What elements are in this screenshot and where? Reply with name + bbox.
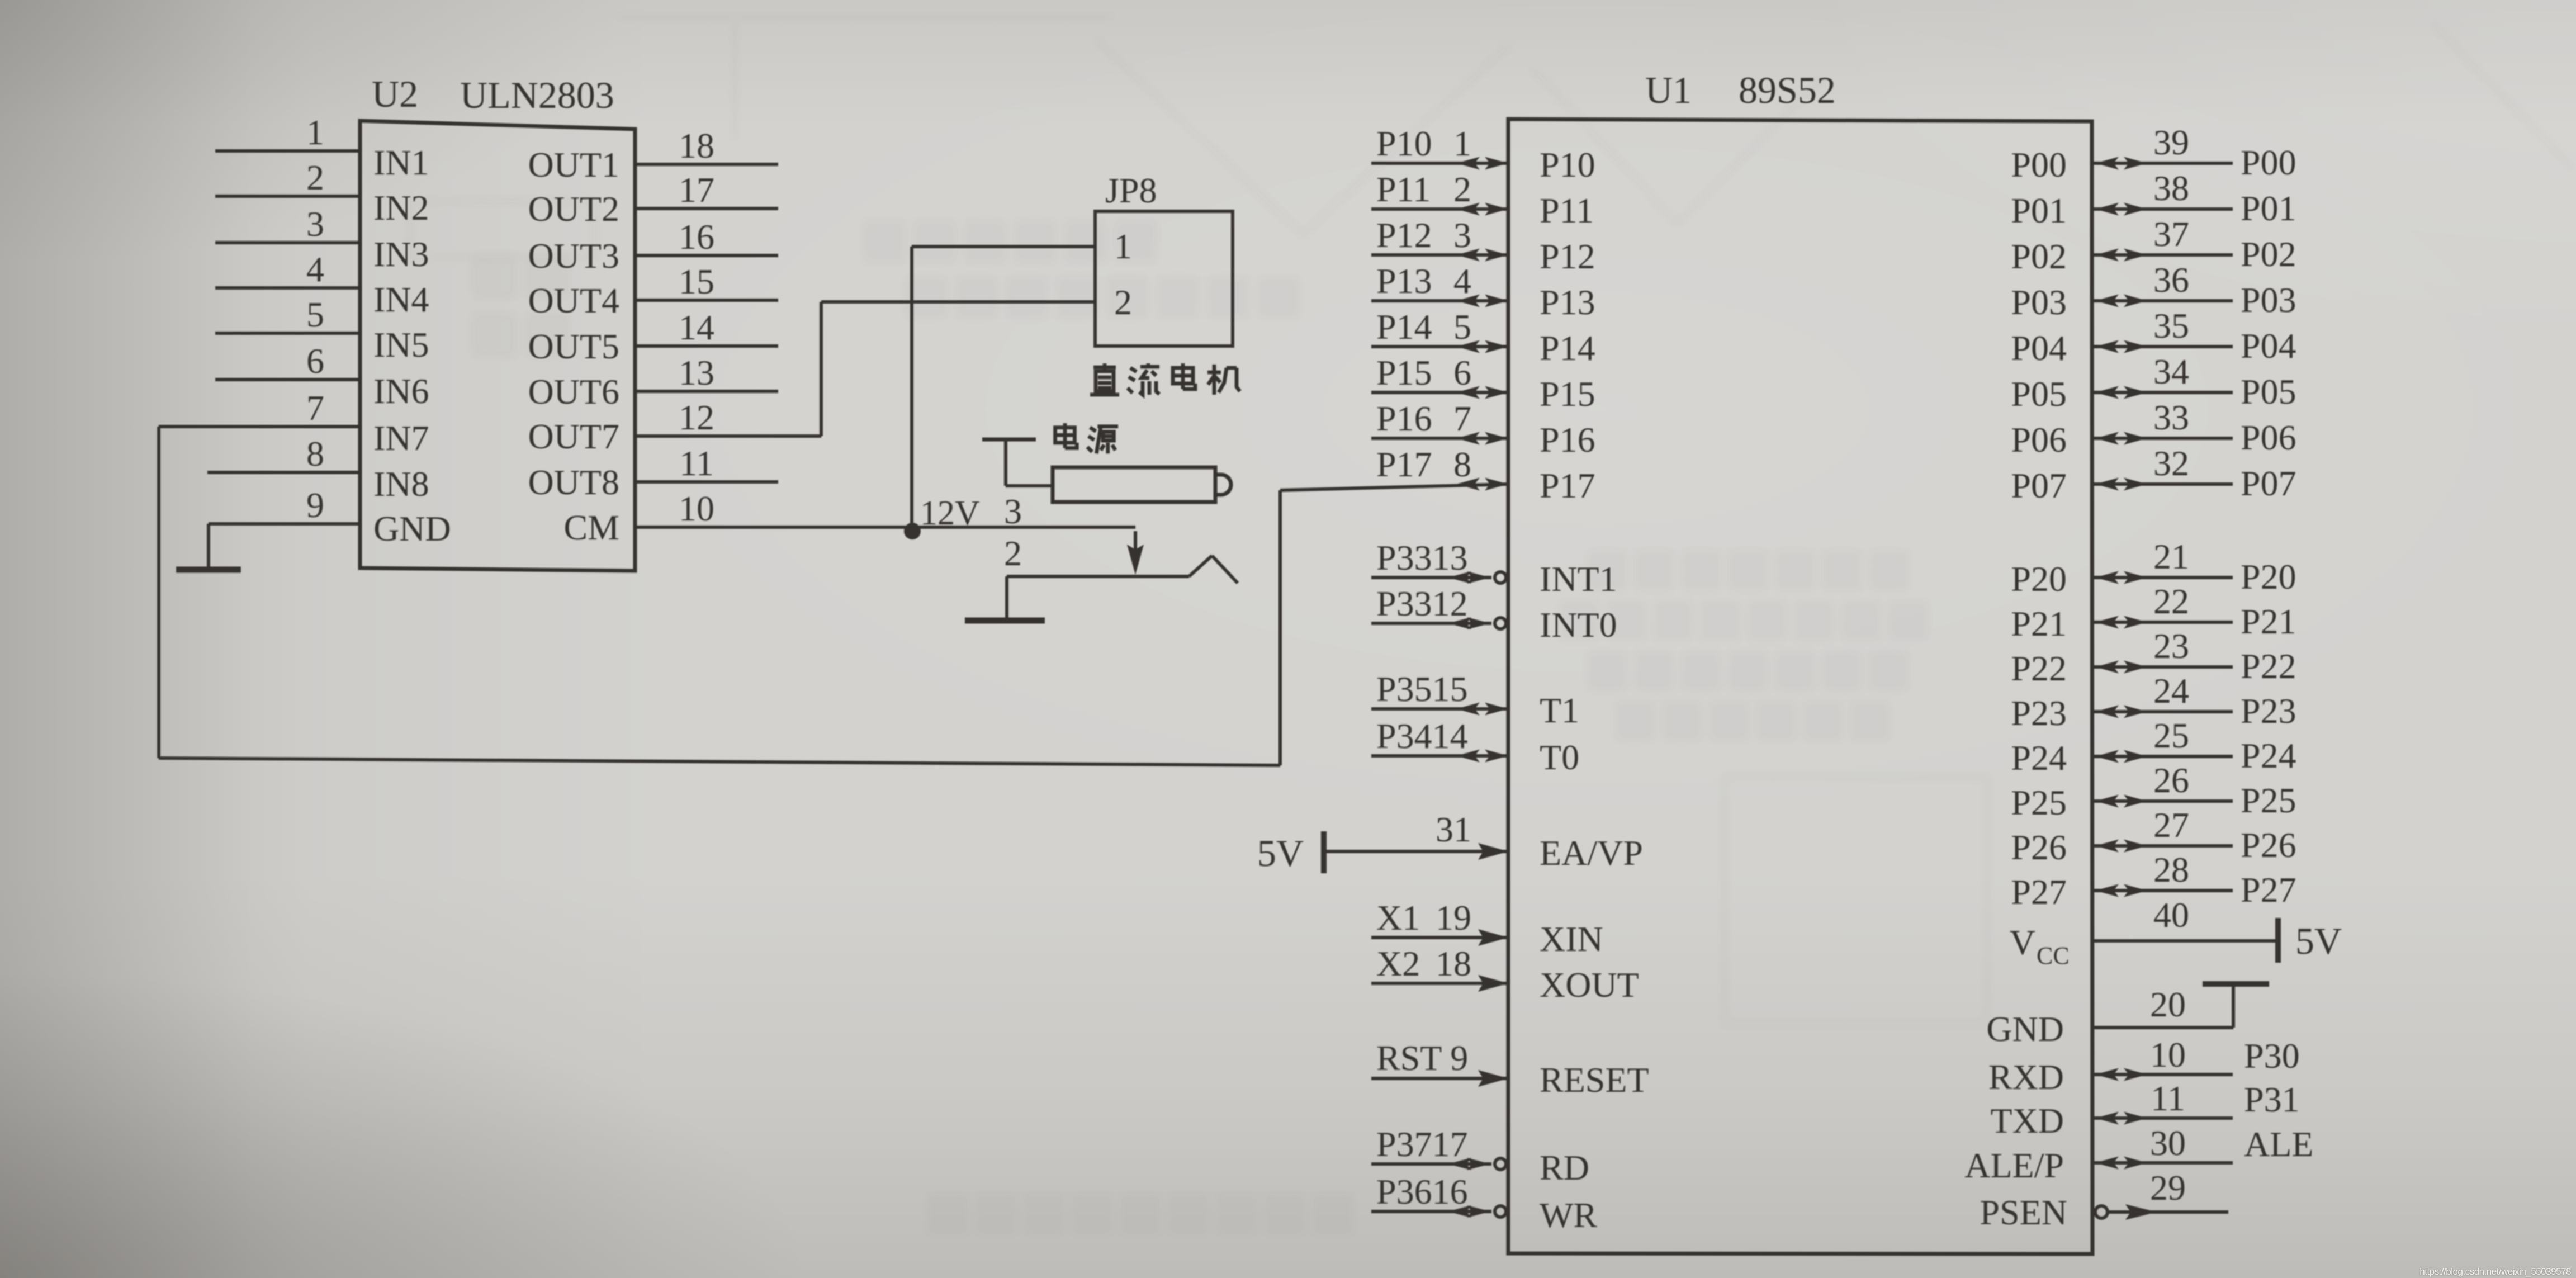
- svg-text:11: 11: [679, 443, 714, 483]
- svg-text:3: 3: [1453, 215, 1471, 255]
- svg-text:P01: P01: [2011, 191, 2067, 230]
- svg-text:P30: P30: [2244, 1036, 2300, 1076]
- svg-text:P11: P11: [1376, 169, 1431, 209]
- svg-text:5V: 5V: [2295, 920, 2342, 962]
- svg-text:P14: P14: [1376, 307, 1432, 347]
- svg-text:P25: P25: [2241, 780, 2296, 820]
- svg-text:P23: P23: [2011, 693, 2067, 733]
- svg-text:P3616: P3616: [1376, 1172, 1468, 1211]
- svg-text:INT0: INT0: [1540, 605, 1617, 645]
- svg-text:P05: P05: [2011, 374, 2067, 414]
- svg-text:RXD: RXD: [1988, 1057, 2064, 1097]
- svg-text:P10: P10: [1540, 145, 1595, 184]
- svg-text:P15: P15: [1540, 374, 1595, 414]
- svg-text:OUT2: OUT2: [528, 189, 619, 229]
- svg-text:34: 34: [2153, 352, 2189, 391]
- svg-text:P07: P07: [2241, 463, 2296, 503]
- svg-text:XIN: XIN: [1540, 919, 1603, 959]
- svg-text:IN2: IN2: [373, 188, 429, 228]
- svg-text:P24: P24: [2011, 738, 2067, 778]
- svg-text:23: 23: [2153, 626, 2189, 666]
- svg-text:P25: P25: [2011, 783, 2067, 822]
- svg-text:17: 17: [679, 170, 714, 210]
- svg-text:39: 39: [2153, 122, 2189, 162]
- svg-text:P10: P10: [1376, 124, 1432, 163]
- svg-text:1: 1: [1114, 226, 1132, 266]
- svg-text:6: 6: [1453, 353, 1471, 392]
- svg-text:GND: GND: [373, 509, 451, 548]
- svg-text:GND: GND: [1986, 1009, 2064, 1049]
- svg-text:5: 5: [1453, 307, 1471, 347]
- svg-text:P3312: P3312: [1376, 584, 1468, 623]
- svg-text:IN1: IN1: [373, 143, 429, 182]
- svg-text:P17: P17: [1376, 444, 1432, 484]
- svg-text:26: 26: [2153, 760, 2189, 800]
- svg-text:4: 4: [1453, 261, 1471, 301]
- svg-text:35: 35: [2153, 306, 2189, 345]
- svg-text:P3515: P3515: [1376, 669, 1468, 709]
- svg-text:P22: P22: [2241, 646, 2296, 686]
- svg-text:P21: P21: [2241, 602, 2296, 641]
- svg-text:OUT4: OUT4: [528, 281, 619, 320]
- svg-text:ALE: ALE: [2244, 1124, 2313, 1164]
- svg-text:P3414: P3414: [1376, 716, 1468, 756]
- svg-text:P22: P22: [2011, 649, 2067, 688]
- svg-text:2: 2: [1114, 282, 1132, 322]
- svg-text:JP8: JP8: [1105, 171, 1157, 210]
- svg-text:9: 9: [306, 485, 324, 525]
- svg-text:P07: P07: [2011, 466, 2067, 505]
- svg-text:P15: P15: [1376, 353, 1432, 392]
- svg-text:21: 21: [2153, 537, 2189, 576]
- svg-text:XOUT: XOUT: [1540, 965, 1639, 1005]
- svg-text:EA/VP: EA/VP: [1540, 833, 1643, 873]
- svg-text:P02: P02: [2011, 236, 2067, 276]
- svg-text:6: 6: [306, 341, 324, 381]
- svg-text:P13: P13: [1540, 282, 1595, 322]
- svg-text:TXD: TXD: [1990, 1101, 2064, 1140]
- svg-text:RD: RD: [1540, 1148, 1589, 1187]
- svg-text:25: 25: [2153, 716, 2189, 755]
- svg-text:RST 9: RST 9: [1376, 1038, 1468, 1078]
- svg-text:X1: X1: [1376, 898, 1420, 938]
- svg-text:P03: P03: [2241, 280, 2296, 320]
- svg-text:P16: P16: [1540, 420, 1595, 460]
- svg-text:P12: P12: [1540, 236, 1595, 276]
- svg-text:IN8: IN8: [373, 464, 429, 504]
- svg-text:P02: P02: [2241, 234, 2296, 274]
- svg-text:15: 15: [679, 262, 714, 301]
- svg-text:7: 7: [1453, 399, 1471, 438]
- svg-text:IN3: IN3: [373, 234, 429, 274]
- svg-text:P23: P23: [2241, 691, 2296, 731]
- svg-text:P04: P04: [2241, 326, 2296, 366]
- svg-text:P26: P26: [2011, 827, 2067, 867]
- svg-text:P3313: P3313: [1376, 538, 1468, 578]
- svg-text:37: 37: [2153, 214, 2189, 254]
- svg-text:OUT8: OUT8: [528, 462, 619, 502]
- svg-text:OUT3: OUT3: [528, 236, 619, 276]
- svg-text:CC: CC: [2037, 942, 2070, 969]
- svg-text:OUT1: OUT1: [528, 145, 619, 184]
- svg-text:P04: P04: [2011, 328, 2067, 368]
- svg-text:89S52: 89S52: [1739, 69, 1836, 111]
- svg-text:4: 4: [306, 249, 324, 289]
- svg-text:P16: P16: [1376, 399, 1432, 438]
- svg-text:16: 16: [679, 217, 714, 257]
- svg-text:P01: P01: [2241, 188, 2296, 228]
- svg-text:28: 28: [2153, 850, 2189, 889]
- svg-text:P27: P27: [2241, 870, 2296, 910]
- svg-text:20: 20: [2150, 984, 2186, 1024]
- svg-text:24: 24: [2153, 671, 2189, 711]
- svg-text:OUT5: OUT5: [528, 326, 619, 366]
- svg-text:2: 2: [1004, 533, 1022, 573]
- svg-text:29: 29: [2150, 1168, 2186, 1208]
- svg-text:13: 13: [679, 353, 714, 392]
- svg-text:P14: P14: [1540, 328, 1595, 368]
- svg-text:2: 2: [1453, 169, 1471, 209]
- svg-text:12V: 12V: [920, 494, 980, 532]
- svg-text:U1: U1: [1645, 69, 1692, 111]
- svg-text:14: 14: [679, 307, 714, 347]
- svg-text:3: 3: [1004, 491, 1022, 531]
- svg-text:40: 40: [2153, 895, 2189, 935]
- svg-text:7: 7: [306, 388, 324, 428]
- svg-text:OUT7: OUT7: [528, 416, 619, 456]
- svg-text:T0: T0: [1540, 737, 1579, 777]
- svg-text:U2: U2: [372, 73, 418, 115]
- svg-text:IN4: IN4: [373, 280, 429, 319]
- svg-text:18: 18: [1436, 944, 1471, 983]
- svg-text:36: 36: [2153, 260, 2189, 300]
- svg-text:5: 5: [306, 295, 324, 334]
- svg-text:P13: P13: [1376, 261, 1432, 301]
- svg-text:P05: P05: [2241, 372, 2296, 411]
- svg-text:32: 32: [2153, 443, 2189, 483]
- svg-text:5V: 5V: [1257, 832, 1304, 874]
- svg-text:10: 10: [2150, 1035, 2186, 1075]
- svg-text:30: 30: [2150, 1123, 2186, 1163]
- svg-text:2: 2: [306, 158, 324, 197]
- svg-text:33: 33: [2153, 397, 2189, 437]
- svg-text:V: V: [2010, 922, 2035, 962]
- svg-text:ALE/P: ALE/P: [1964, 1146, 2064, 1185]
- svg-text:22: 22: [2153, 581, 2189, 621]
- svg-text:P21: P21: [2011, 604, 2067, 643]
- svg-text:X2: X2: [1376, 944, 1420, 983]
- svg-text:INT1: INT1: [1540, 559, 1617, 599]
- svg-text:ULN2803: ULN2803: [460, 74, 614, 116]
- svg-text:38: 38: [2153, 168, 2189, 208]
- svg-text:P11: P11: [1540, 191, 1594, 230]
- svg-text:P20: P20: [2241, 557, 2296, 597]
- svg-text:27: 27: [2153, 805, 2189, 845]
- svg-text:P3717: P3717: [1376, 1124, 1468, 1164]
- svg-text:P00: P00: [2241, 143, 2296, 182]
- svg-text:11: 11: [2151, 1078, 2185, 1118]
- svg-text:P12: P12: [1376, 215, 1432, 255]
- svg-text:CM: CM: [563, 508, 619, 547]
- svg-text:RESET: RESET: [1540, 1060, 1649, 1100]
- svg-text:P06: P06: [2011, 420, 2067, 460]
- svg-text:P20: P20: [2011, 559, 2067, 599]
- svg-text:18: 18: [679, 126, 714, 165]
- svg-text:P17: P17: [1540, 466, 1595, 505]
- svg-text:P27: P27: [2011, 872, 2067, 912]
- svg-text:P26: P26: [2241, 825, 2296, 865]
- svg-text:T1: T1: [1540, 690, 1579, 730]
- svg-text:P06: P06: [2241, 418, 2296, 457]
- svg-text:19: 19: [1436, 898, 1471, 938]
- svg-text:P00: P00: [2011, 145, 2067, 184]
- svg-text:1: 1: [306, 112, 324, 152]
- svg-text:IN6: IN6: [373, 371, 429, 411]
- svg-text:IN5: IN5: [373, 325, 429, 365]
- svg-text:PSEN: PSEN: [1980, 1192, 2068, 1232]
- svg-text:31: 31: [1436, 810, 1471, 849]
- svg-text:12: 12: [679, 397, 714, 437]
- svg-text:8: 8: [306, 434, 324, 474]
- svg-text:3: 3: [306, 204, 324, 244]
- svg-text:8: 8: [1453, 444, 1471, 484]
- svg-text:P03: P03: [2011, 282, 2067, 322]
- svg-text:IN7: IN7: [373, 418, 429, 458]
- svg-text:P31: P31: [2244, 1080, 2300, 1119]
- svg-text:1: 1: [1453, 124, 1471, 163]
- svg-text:P24: P24: [2241, 736, 2296, 775]
- svg-text:WR: WR: [1540, 1195, 1597, 1235]
- svg-text:10: 10: [679, 489, 714, 528]
- svg-text:OUT6: OUT6: [528, 372, 619, 411]
